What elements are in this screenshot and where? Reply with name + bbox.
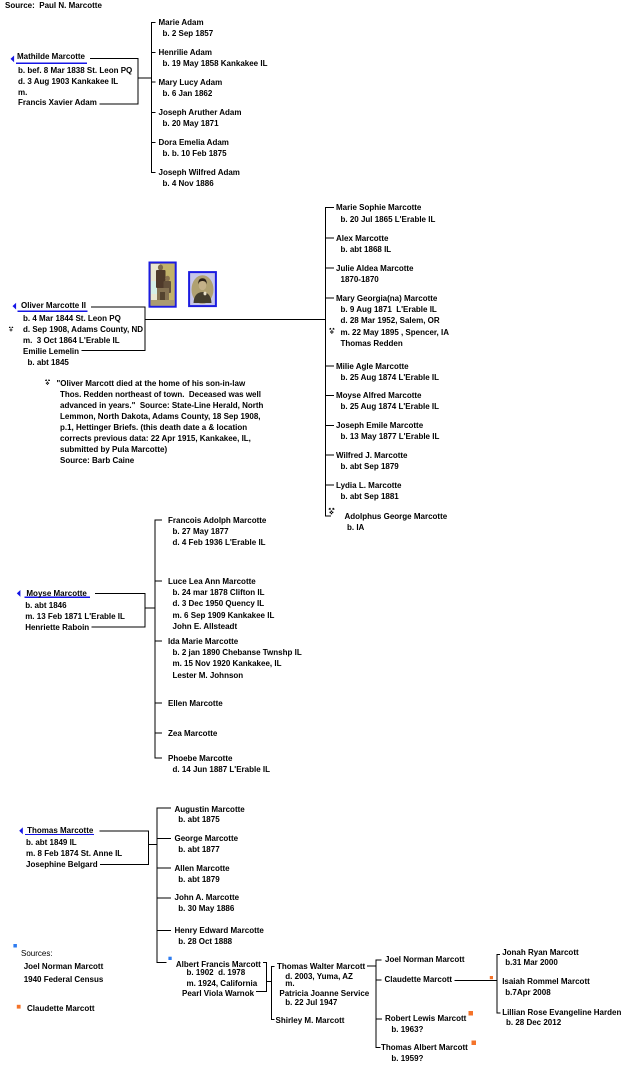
- tick Moyse child 5: [155, 733, 162, 734]
- node Shirley M. Marcott: [276, 1015, 345, 1026]
- wire Thomas name to marriage bracket: [100, 830, 149, 831]
- node Dora Emelia Adam: [159, 137, 229, 148]
- tick Adam child 1: [152, 22, 156, 23]
- source marker square (Robert Lewis Marcott): [469, 1011, 474, 1016]
- node Zea Marcotte: [168, 728, 217, 739]
- wire Henriette Raboin to marriage bracket: [92, 626, 146, 627]
- node Mary Georgia(na) Marcotte: [336, 293, 437, 304]
- children bracket vertical (Albert's children): [271, 966, 272, 1020]
- node Joel Norman Marcott: [385, 954, 465, 965]
- footnote symbol at m. 22 May 1895: [329, 328, 334, 334]
- wire marriage to children bracket: [145, 607, 155, 608]
- tick Oliver child 7: [326, 425, 335, 426]
- node Moyse Marcotte: [26, 588, 86, 599]
- node Oliver Marcotte II: [21, 300, 86, 311]
- legend Claudette Marcott: [27, 1003, 95, 1014]
- node Lydia L. Marcotte: [336, 480, 402, 491]
- ancestor marker triangle (Thomas Marcotte): [19, 827, 23, 834]
- tick Oliver child 3: [326, 268, 335, 269]
- node Moyse Alfred Marcotte: [336, 390, 422, 401]
- node Thomas Walter Marcott: [277, 961, 365, 972]
- photo thumbnail 1 (Oliver Marcotte family portrait): [150, 263, 176, 307]
- marriage bracket vertical (Oliver+Emilie): [145, 306, 146, 351]
- marriage bracket vertical (Thomas+Josephine): [148, 830, 149, 865]
- tick Thomas Albert Marcott: [376, 1047, 381, 1048]
- legend source marker square (blue): [13, 944, 17, 948]
- tick Moyse child 1: [155, 520, 162, 521]
- node Jonah Ryan Marcott: [502, 947, 578, 958]
- node Joseph Wilfred Adam: [159, 167, 240, 178]
- children bracket vertical (Claudette's children): [497, 954, 498, 1014]
- node John A. Marcotte: [175, 892, 240, 903]
- tick Moyse child 6: [155, 758, 162, 759]
- node Claudette Marcott: [385, 974, 453, 985]
- tick Adam child 5: [152, 142, 156, 143]
- tick Joel Norman Marcott: [376, 959, 382, 960]
- wire Francis Xavier Adam to marriage bracket: [100, 104, 139, 105]
- wire Claudette to children bracket: [455, 980, 498, 981]
- node Thomas Albert Marcott: [381, 1042, 468, 1053]
- footnote symbol at Adolphus George Marcotte: [329, 508, 335, 515]
- node Joseph Aruther Adam: [159, 107, 242, 118]
- ancestor marker triangle (Oliver Marcotte II): [13, 303, 17, 310]
- tick Oliver child 1: [326, 207, 335, 208]
- node Wilfred J. Marcotte: [336, 450, 408, 461]
- children bracket vertical (Thomas Walter's children): [376, 959, 377, 1048]
- children bracket vertical (Thomas's children): [157, 808, 158, 963]
- tick Adam child 6: [152, 172, 156, 173]
- node Marie Adam: [159, 17, 204, 28]
- tick Thomas child 3: [157, 868, 171, 869]
- node Allen Marcotte: [175, 863, 230, 874]
- name underline (Oliver Marcotte II): [18, 311, 88, 312]
- node George Marcotte: [175, 833, 239, 844]
- node Marie Sophie Marcotte: [336, 202, 421, 213]
- node Alex Marcotte: [336, 233, 388, 244]
- wire Albert name to marriage bracket: [263, 962, 267, 963]
- children bracket vertical (Adam children): [151, 22, 152, 173]
- tick Oliver child 6: [326, 395, 335, 396]
- source marker square (Thomas Albert Marcott): [472, 1041, 477, 1046]
- legend source marker square (orange): [17, 1005, 21, 1009]
- tick Jonah Ryan Marcott: [497, 954, 500, 955]
- wire Pearl Viola Warnok to marriage bracket: [256, 991, 267, 992]
- tick Adam child 2: [152, 52, 156, 53]
- node Phoebe Marcotte: [168, 753, 232, 764]
- name underline (Mathilde Marcotte): [16, 63, 87, 64]
- legend sources list: [21, 948, 53, 959]
- marriage bracket vertical (Moyse+Henriette): [145, 593, 146, 628]
- node Joseph Emile Marcotte: [336, 420, 423, 431]
- node Isaiah Rommel Marcott: [502, 976, 590, 987]
- wire marriage to children bracket: [148, 844, 157, 845]
- tick Lillian Rose Evangeline Harden: [497, 1013, 501, 1014]
- tick Thomas child 5: [157, 930, 171, 931]
- tick Oliver child 10 (Adolphus): [326, 516, 332, 517]
- wire marriage to children bracket: [138, 78, 152, 79]
- ancestor marker triangle (Moyse Marcotte): [17, 590, 21, 597]
- wire marriage to Marcotte children bracket: [145, 319, 326, 320]
- footnote symbol at note block: [45, 379, 50, 385]
- node Mary Lucy Adam: [159, 77, 223, 88]
- tick Moyse child 2: [155, 581, 162, 582]
- node Ellen Marcotte: [168, 698, 223, 709]
- node Albert Francis Marcott: [176, 959, 261, 970]
- wire Oliver name to marriage bracket: [91, 306, 145, 307]
- tick Claudette Marcott: [376, 979, 382, 980]
- tick Adam child 3: [152, 82, 156, 83]
- tick Shirley M. Marcott: [271, 1019, 274, 1020]
- tick Oliver child 9: [326, 485, 335, 486]
- node Luce Lea Ann Marcotte: [168, 576, 256, 587]
- wire Moyse name to marriage bracket: [95, 593, 145, 594]
- wire Josephine Belgard to marriage bracket: [100, 864, 148, 865]
- node Adolphus George Marcotte: [345, 511, 448, 522]
- tick Thomas child 1: [157, 808, 171, 809]
- name underline (Thomas Marcotte): [25, 834, 94, 835]
- node Lillian Rose Evangeline Harden: [502, 1007, 621, 1018]
- source marker square (Albert Francis Marcott): [168, 957, 171, 960]
- node Augustin Marcotte: [175, 804, 245, 815]
- photo thumbnail 2 (oval portrait): [189, 272, 216, 306]
- node Henry Edward Marcotte: [175, 925, 264, 936]
- tick Robert Lewis Marcott: [376, 1018, 382, 1019]
- node Mathilde Marcotte: [17, 51, 85, 62]
- tick Oliver child 5: [326, 365, 335, 366]
- marriage bracket vertical (Mathilde+Francis): [138, 58, 139, 105]
- tick Moyse child 4: [155, 703, 162, 704]
- page source credit: [5, 0, 102, 11]
- node Milie Agle Marcotte: [336, 361, 409, 372]
- tick Thomas child 2: [157, 838, 171, 839]
- node Julie Aldea Marcotte: [336, 263, 414, 274]
- tick Oliver child 8: [326, 455, 335, 456]
- tick Moyse child 3: [155, 641, 162, 642]
- wire Emilie Lemelin to marriage bracket: [82, 350, 146, 351]
- footnote symbol at d. Sep 1908: [9, 326, 13, 331]
- tick Thomas Walter Marcott: [271, 966, 274, 967]
- node Francois Adolph Marcotte: [168, 515, 266, 526]
- footnote text block (Oliver Marcott death note): [57, 378, 246, 389]
- node Robert Lewis Marcott: [385, 1013, 466, 1024]
- node Henrilie Adam: [159, 47, 213, 58]
- ancestor marker triangle (Mathilde Marcotte): [11, 56, 15, 63]
- wire marriage to children bracket: [267, 981, 272, 982]
- wire Thomas Walter to children bracket: [367, 966, 376, 967]
- tick Adam child 4: [152, 112, 156, 113]
- tick Thomas child 6 (Albert): [157, 962, 166, 963]
- children bracket vertical (Moyse's children): [155, 520, 156, 759]
- node Thomas Marcotte: [27, 825, 93, 836]
- node Ida Marie Marcotte: [168, 636, 238, 647]
- source marker square on Claudette wire: [490, 976, 493, 979]
- marriage bracket vertical (Albert+Pearl): [266, 962, 267, 992]
- wire Mathilde name to marriage bracket: [90, 58, 138, 59]
- tick Oliver child 4: [326, 298, 335, 299]
- children bracket vertical (Oliver's children): [325, 207, 326, 516]
- tick Thomas child 4: [157, 897, 171, 898]
- name underline (Moyse Marcotte): [25, 597, 90, 598]
- tick Oliver child 2: [326, 238, 335, 239]
